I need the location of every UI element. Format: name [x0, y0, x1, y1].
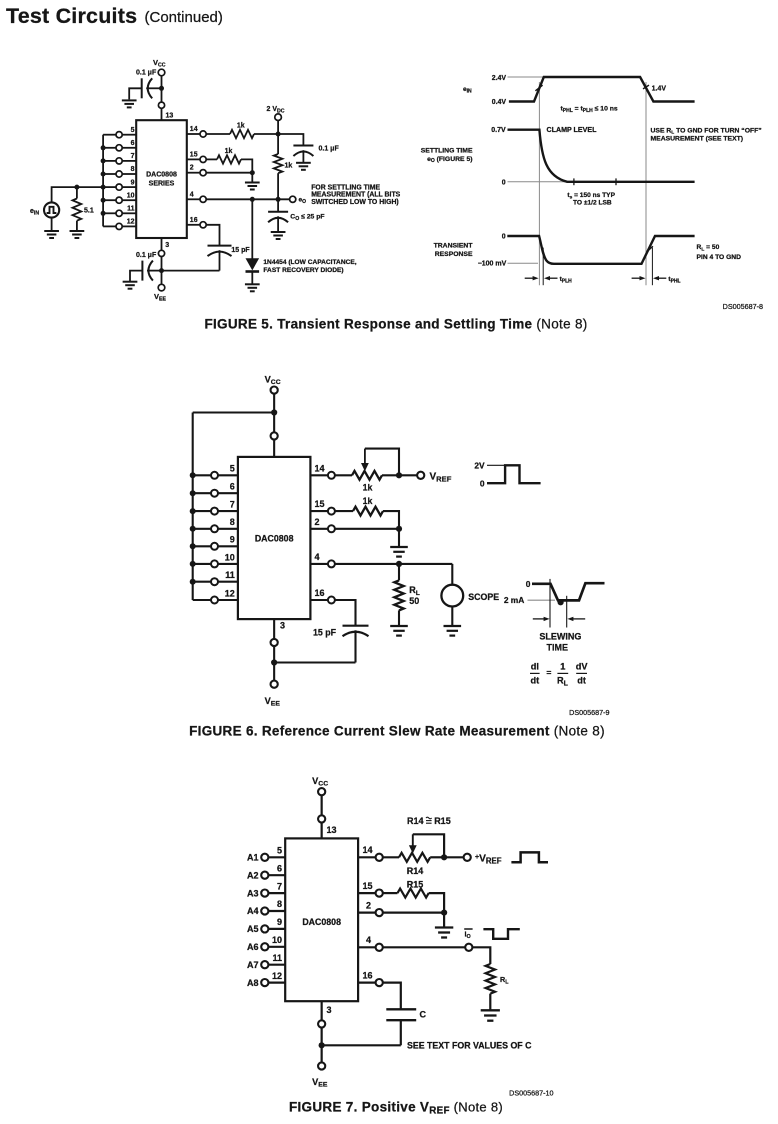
wire 2VDC to cap 0.1uF Fig5: [278, 134, 303, 146]
svg-text:2: 2: [366, 900, 371, 910]
bus junction pin 9 Fig6: [190, 543, 196, 549]
svg-text:VCC: VCC: [265, 375, 281, 387]
ground at eIN Fig5: [44, 231, 59, 238]
pin 9 input connector Fig6: [218, 545, 238, 547]
wire pin13 stub Fig6: [273, 439, 275, 457]
wire bypass cap to ground Fig5: [129, 88, 142, 99]
svg-text:0: 0: [480, 478, 485, 488]
level line 2V Fig6: [487, 464, 504, 466]
svg-text:7: 7: [131, 153, 135, 160]
pin 3 stub Fig6: [273, 619, 275, 639]
diode 1N4454 Fig5: [251, 199, 253, 258]
pin 2 connector Fig7: [358, 911, 376, 913]
wire cap C to VEE node Fig7: [322, 1044, 401, 1046]
svg-text:6: 6: [230, 482, 235, 492]
ground at resistor 5.1 Fig5: [70, 231, 85, 238]
svg-text:0: 0: [502, 179, 506, 186]
junction VCC bus Fig6: [271, 409, 277, 415]
svg-text:RESPONSE: RESPONSE: [435, 251, 473, 258]
junction pin2 ground node Fig7: [441, 910, 447, 916]
wire pin4 connector to RL Fig7: [472, 947, 490, 964]
wire eIN source to ground Fig5: [51, 218, 53, 231]
svg-text:A4: A4: [247, 906, 259, 916]
svg-text:2: 2: [315, 517, 320, 527]
waveform IO pulse Fig7: [483, 929, 519, 939]
ground at VCC bypass Fig5: [122, 100, 137, 107]
svg-text:VREF: VREF: [430, 471, 452, 483]
power terminal VEE Fig6: [271, 681, 278, 688]
svg-text:TIME: TIME: [547, 643, 569, 653]
svg-text:VEE: VEE: [265, 696, 281, 708]
waveform eIN trace Fig5: [509, 77, 695, 102]
svg-text:(Continued): (Continued): [145, 9, 223, 26]
bus junction pin 11 Fig6: [190, 579, 196, 585]
svg-text:10: 10: [225, 552, 235, 562]
pin 6 input connector Fig6: [218, 492, 238, 494]
svg-text:SEE TEXT FOR VALUES OF C: SEE TEXT FOR VALUES OF C: [407, 1040, 532, 1050]
wire VEE bypass to ground Fig5: [130, 271, 142, 282]
pin 11 input connector Fig6: [218, 581, 238, 583]
junction RL branch Fig6: [396, 561, 402, 567]
IC U3 DAC0808 Fig7: [285, 838, 358, 1001]
power terminal VCC Fig5: [158, 69, 165, 76]
dimension arrows tPHL Fig5: [632, 277, 641, 279]
svg-text:tPHL: tPHL: [668, 276, 680, 284]
power terminal VEE Fig5: [158, 284, 165, 291]
svg-text:9: 9: [131, 179, 135, 186]
capacitor 0.1uF VCC bypass Fig5: [141, 78, 143, 98]
ground at pin2 Fig5: [245, 183, 260, 190]
wire cap to VEE node Fig6: [274, 661, 355, 663]
wire pin16 to cap 15pF Fig5: [206, 225, 219, 246]
junction CO branch Fig5: [276, 197, 281, 202]
svg-text:3: 3: [280, 621, 285, 631]
svg-text:16: 16: [315, 588, 325, 598]
level line -100mV Fig5: [508, 262, 539, 264]
pin 3 stub Fig5: [161, 238, 163, 250]
pin 2 connector Fig6: [310, 528, 328, 530]
ground at pin2 Fig7: [435, 928, 453, 938]
wire cap to ground Fig5: [302, 150, 304, 163]
pin 13 connector Fig5: [158, 102, 164, 108]
pin 14 connector Fig6: [310, 474, 328, 476]
wire pin3 to VEE Fig6: [273, 646, 275, 681]
capacitor 15pF Fig6: [343, 625, 369, 627]
wire VCC to input bus Fig6: [193, 411, 274, 413]
pin 3 stub Fig7: [321, 1001, 323, 1020]
junction 2VDC node Fig5: [276, 132, 281, 137]
measure line tPLH Fig5: [542, 248, 544, 286]
tick transient rise Fig5: [647, 246, 653, 252]
pin 9 input connector Fig5: [122, 186, 136, 188]
svg-text:1k: 1k: [363, 496, 373, 506]
ground at 0.1uF cap Fig5: [296, 163, 311, 170]
svg-text:A3: A3: [247, 888, 259, 898]
svg-text:MEASUREMENT (ALL BITS: MEASUREMENT (ALL BITS: [311, 192, 400, 199]
svg-text:12: 12: [127, 219, 135, 226]
svg-text:0.1 μF: 0.1 μF: [136, 252, 157, 259]
svg-text:FOR SETTLING TIME: FOR SETTLING TIME: [311, 184, 380, 191]
svg-text:7: 7: [230, 500, 235, 510]
svg-text:4: 4: [366, 935, 371, 945]
pin 12 input A8 Fig7: [268, 981, 285, 983]
connector on pin4 line Fig7: [465, 944, 472, 951]
svg-text:SERIES: SERIES: [149, 181, 175, 188]
svg-text:14: 14: [315, 463, 325, 473]
measure line slew right Fig6: [566, 596, 568, 628]
bus junction pin 8 Fig5: [101, 172, 106, 177]
svg-text:DAC0808: DAC0808: [255, 534, 294, 544]
svg-text:DAC0808: DAC0808: [146, 172, 177, 179]
svg-text:5: 5: [230, 464, 235, 474]
svg-text:2.4V: 2.4V: [492, 75, 507, 82]
svg-text:VCC: VCC: [153, 58, 166, 69]
svg-text:A1: A1: [247, 853, 259, 863]
svg-text:SCOPE: SCOPE: [468, 592, 499, 602]
svg-text:Test Circuits: Test Circuits: [6, 4, 137, 28]
svg-text:=: =: [546, 668, 551, 678]
pin 11 input A7 Fig7: [268, 964, 285, 966]
input bus wire Fig5: [102, 135, 104, 227]
svg-text:SETTLING TIME: SETTLING TIME: [421, 147, 473, 154]
svg-text:15: 15: [315, 499, 325, 509]
wire pin4 to eO Fig5: [206, 198, 289, 200]
junction pot wiper Fig6: [396, 472, 402, 478]
junction VEE node Fig6: [271, 659, 277, 665]
svg-text:50: 50: [409, 596, 419, 606]
ground at RL Fig6: [390, 626, 408, 636]
svg-text:RL = 50: RL = 50: [697, 244, 720, 252]
power terminal 2VDC Fig5: [275, 114, 282, 121]
capacitor CO Fig5: [277, 199, 279, 212]
junction eIN resistor Fig5: [74, 185, 79, 190]
pin 2 connector Fig5: [187, 172, 200, 174]
pin 10 input connector Fig6: [218, 563, 238, 565]
svg-text:4: 4: [315, 552, 320, 562]
svg-text:FIGURE 7. Positive VREF (Note: FIGURE 7. Positive VREF (Note 8): [289, 1100, 503, 1117]
pin 12 input connector Fig5: [122, 225, 136, 227]
svg-text:VEE: VEE: [154, 292, 166, 303]
svg-text:10: 10: [272, 935, 282, 945]
output terminal eO Fig5: [290, 196, 296, 202]
svg-text:5: 5: [131, 127, 135, 134]
pulse source eIN Fig5: [44, 202, 59, 217]
svg-text:16: 16: [363, 970, 373, 980]
power terminal VCC Fig6: [271, 387, 278, 394]
svg-text:6: 6: [277, 863, 282, 873]
svg-text:15: 15: [363, 881, 373, 891]
pin 7 input connector Fig5: [122, 160, 136, 162]
dimension arrows tPLH Fig5: [525, 277, 534, 279]
svg-text:1k: 1k: [363, 483, 373, 493]
wire R15 to pin2 node Fig7: [429, 893, 444, 913]
svg-text:−100 mV: −100 mV: [478, 261, 507, 268]
svg-text:eIN: eIN: [30, 208, 39, 217]
measure line slew left Fig6: [549, 579, 551, 628]
resistor 1k Fig6: [335, 510, 353, 512]
wire R14 to +VREF Fig7: [444, 856, 464, 858]
wire pin15 to pin2 node Fig5: [241, 159, 252, 172]
svg-text:11: 11: [225, 570, 235, 580]
svg-text:5.1: 5.1: [84, 208, 94, 215]
svg-text:DS005687-9: DS005687-9: [569, 708, 609, 717]
wire bypass cap to junction Fig5: [146, 87, 159, 89]
pin 3 connector Fig6: [271, 639, 278, 646]
svg-text:CLAMP LEVEL: CLAMP LEVEL: [547, 126, 598, 134]
pin 16 connector Fig5: [187, 224, 200, 226]
svg-text:RL: RL: [557, 676, 569, 688]
svg-text:CO ≤ 25 pF: CO ≤ 25 pF: [290, 213, 324, 222]
svg-text:DS005687-10: DS005687-10: [509, 1089, 553, 1098]
capacitor 0.1uF VEE bypass Fig5: [141, 261, 143, 281]
svg-text:A2: A2: [247, 870, 259, 880]
wire pin13 stub Fig7: [321, 823, 323, 839]
svg-text:8: 8: [131, 166, 135, 173]
svg-text:R14: R14: [407, 866, 424, 876]
input bus wire Fig6: [192, 413, 194, 601]
ground at diode Fig5: [245, 284, 260, 291]
pin 6 input A2 Fig7: [268, 874, 285, 876]
reference line right Fig5 waveforms: [645, 82, 647, 285]
svg-text:1N4454 (LOW CAPACITANCE,: 1N4454 (LOW CAPACITANCE,: [263, 259, 356, 266]
svg-text:1k: 1k: [285, 163, 293, 170]
pin 5 input connector Fig6: [218, 474, 238, 476]
svg-text:eIN: eIN: [463, 86, 472, 95]
pin 7 input A3 Fig7: [268, 892, 285, 894]
bus junction pin 9 Fig5: [101, 185, 106, 190]
ground at VEE bypass Fig5: [123, 282, 138, 289]
wire scope to ground Fig6: [451, 607, 453, 627]
svg-text:14: 14: [190, 126, 198, 133]
svg-text:2V: 2V: [474, 461, 485, 471]
svg-text:9: 9: [277, 917, 282, 927]
svg-text:dt: dt: [577, 676, 586, 686]
svg-text:12: 12: [225, 588, 235, 598]
svg-text:tPLH: tPLH: [560, 276, 573, 284]
svg-text:1: 1: [560, 661, 565, 671]
power terminal VEE Fig7: [318, 1062, 325, 1069]
svg-text:14: 14: [363, 845, 373, 855]
wire pin2 to ground node Fig5: [206, 172, 252, 174]
pin 15 connector Fig6: [310, 510, 328, 512]
pin 8 input A4 Fig7: [268, 910, 285, 912]
svg-text:15: 15: [190, 151, 198, 158]
svg-text:0.1 μF: 0.1 μF: [319, 146, 340, 153]
svg-text:1k: 1k: [237, 123, 245, 130]
pin 3 connector Fig5: [158, 250, 164, 256]
capacitor 15pF Fig5: [208, 245, 232, 247]
svg-text:1.4V: 1.4V: [652, 86, 667, 93]
pin 3 connector Fig7: [318, 1020, 325, 1027]
svg-text:RL: RL: [500, 975, 509, 986]
svg-text:SWITCHED LOW TO HIGH): SWITCHED LOW TO HIGH): [311, 199, 399, 206]
svg-text:A8: A8: [247, 978, 259, 988]
ground at RL Fig7: [481, 1010, 500, 1020]
bus junction pin 6 Fig6: [190, 490, 196, 496]
bus junction pin 8 Fig6: [190, 526, 196, 532]
wire pin2 node to ground Fig7: [443, 913, 445, 928]
pin 16 connector Fig7: [358, 981, 376, 983]
wire pin2 node to ground Fig6: [398, 529, 400, 547]
junction VEE node Fig5: [159, 268, 164, 273]
wire pin3 to VEE Fig7: [321, 1027, 323, 1062]
svg-text:15 pF: 15 pF: [231, 247, 250, 254]
pin 14 connector Fig7: [358, 856, 376, 858]
resistor 1k output Fig5: [206, 133, 230, 135]
wire pin13 stub Fig5: [161, 108, 163, 120]
svg-text:DS005687-8: DS005687-8: [723, 302, 763, 311]
wire pin2 to ground node Fig7: [383, 911, 444, 913]
svg-text:0.1 μF: 0.1 μF: [136, 70, 157, 77]
power terminal VCC Fig7: [318, 788, 325, 795]
ground at CO Fig5: [271, 232, 286, 239]
svg-text:16: 16: [190, 217, 198, 224]
wire pin16 to cap C Fig7: [383, 983, 401, 1010]
svg-text:eO: eO: [299, 197, 307, 206]
svg-text:tPHL = tPLH ≤ 10 ns: tPHL = tPLH ≤ 10 ns: [561, 106, 618, 114]
svg-text:eO (FIGURE 5): eO (FIGURE 5): [427, 156, 472, 164]
output terminal +VREF Fig7: [464, 854, 471, 861]
svg-text:0.7V: 0.7V: [491, 127, 506, 134]
svg-text:DAC0808: DAC0808: [302, 917, 341, 927]
junction pin2 ground node Fig5: [250, 170, 255, 175]
bus junction pin 7 Fig5: [101, 158, 106, 163]
waveform +VREF pulse Fig7: [511, 852, 548, 862]
resistor 1k vertical Fig5: [277, 134, 279, 154]
pin 5 input connector Fig5: [122, 134, 136, 136]
svg-text:dV: dV: [576, 661, 589, 671]
svg-text:VEE: VEE: [312, 1077, 328, 1089]
bus junction pin 7 Fig6: [190, 508, 196, 514]
bus junction pin 6 Fig5: [101, 145, 106, 150]
pin 15 connector Fig5: [187, 158, 200, 160]
tick settling 1 Fig5: [573, 178, 575, 185]
wire to ground pin2 Fig5: [251, 173, 253, 183]
pin 9 input A5 Fig7: [268, 928, 285, 930]
svg-text:2 VDC: 2 VDC: [267, 106, 285, 115]
wire eIN node Fig5: [52, 187, 104, 202]
svg-text:A5: A5: [247, 924, 259, 934]
wire pin4 to scope Fig6: [335, 563, 452, 565]
junction pin2 ground node Fig6: [396, 526, 402, 532]
svg-text:VCC: VCC: [312, 776, 328, 788]
dimension arrows slewing Fig6: [533, 618, 546, 620]
svg-text:8: 8: [230, 517, 235, 527]
svg-text:C: C: [420, 1009, 427, 1019]
level line 2.4V Fig5: [508, 76, 544, 78]
pin 10 input connector Fig5: [122, 199, 136, 201]
zero reference settling Fig5: [508, 181, 569, 183]
svg-text:A6: A6: [247, 942, 259, 952]
wire VEE node to cap15pF Fig5: [162, 270, 220, 272]
IC U2 DAC0808 Fig6: [238, 457, 311, 619]
svg-text:3: 3: [327, 1005, 332, 1015]
svg-text:9: 9: [230, 535, 235, 545]
pin 13 connector Fig7: [318, 815, 325, 822]
svg-text:7: 7: [277, 881, 282, 891]
capacitor C Fig7: [386, 1008, 416, 1010]
measure line tPHL Fig5: [651, 248, 653, 286]
bus junction pin 10 Fig6: [190, 561, 196, 567]
tick rising edge Fig5: [535, 85, 542, 91]
bus junction pin 5 Fig6: [190, 472, 196, 478]
svg-text:SLEWING: SLEWING: [539, 631, 581, 641]
scope Fig6: [441, 585, 463, 607]
waveform 2V pulse Fig6: [487, 465, 541, 483]
svg-text:11: 11: [127, 206, 135, 213]
resistor R15 Fig7: [383, 892, 398, 894]
wire pin2 to ground node Fig6: [335, 528, 399, 530]
svg-text:2 mA: 2 mA: [504, 595, 524, 605]
waveform transient trace Fig5: [507, 236, 694, 264]
svg-text:3: 3: [165, 242, 169, 249]
tick falling edge Fig5: [643, 85, 649, 89]
waveform settling trace Fig5: [508, 130, 695, 182]
bus junction pin 10 Fig5: [101, 198, 106, 203]
wire pin4 to RL Fig7: [383, 946, 465, 948]
svg-text:10: 10: [127, 192, 135, 199]
svg-text:13: 13: [166, 113, 174, 120]
potentiometer 1k Fig6: [335, 474, 352, 476]
pin 7 input connector Fig6: [218, 510, 238, 512]
junction VEE node Fig7: [319, 1042, 325, 1048]
tick settling 2 Fig5: [615, 178, 617, 185]
pin 10 input A6 Fig7: [268, 946, 285, 948]
junction R14 wiper Fig7: [441, 854, 447, 860]
wire VCC to pin13 Fig5: [161, 75, 163, 102]
junction VCC bypass Fig5: [159, 86, 164, 91]
svg-text:5: 5: [277, 846, 282, 856]
svg-text:A7: A7: [247, 960, 259, 970]
wire pot to VREF Fig6: [399, 474, 417, 476]
IC U1 DAC0808 SERIES Fig5: [136, 120, 187, 238]
svg-text:dt: dt: [530, 676, 539, 686]
output terminal VREF Fig6: [417, 472, 424, 479]
svg-text:TO ±1/2 LSB: TO ±1/2 LSB: [573, 200, 612, 207]
svg-text:15 pF: 15 pF: [313, 628, 337, 638]
pin 13 connector Fig6: [271, 432, 278, 439]
wire VCC to pin13 Fig6: [273, 394, 275, 433]
wire pin15 to pin2 node Fig6: [383, 511, 399, 529]
svg-text:12: 12: [272, 971, 282, 981]
pin 12 input connector Fig6: [218, 599, 238, 601]
wire VCC to pin13 Fig7: [321, 795, 323, 815]
svg-text:0: 0: [526, 579, 531, 589]
svg-text:MEASUREMENT (SEE TEXT): MEASUREMENT (SEE TEXT): [651, 135, 744, 142]
svg-text:13: 13: [327, 825, 337, 835]
level line 2mA Fig6: [528, 599, 556, 601]
svg-text:2: 2: [190, 165, 194, 172]
svg-text:4: 4: [190, 191, 194, 198]
svg-text:R14: R14: [407, 816, 424, 826]
svg-text:0.4V: 0.4V: [492, 99, 507, 106]
pin 15 connector Fig7: [358, 892, 376, 894]
pin 6 input connector Fig5: [122, 147, 136, 149]
svg-text:FIGURE 6. Reference Current Sl: FIGURE 6. Reference Current Slew Rate Me…: [189, 724, 605, 739]
svg-text:8: 8: [277, 899, 282, 909]
wire pin3 to VEE Fig5: [161, 257, 163, 285]
resistor RL 50 Fig6: [398, 564, 400, 581]
svg-text:dI: dI: [531, 661, 539, 671]
resistor RL Fig7: [486, 964, 495, 994]
pin 5 input A1 Fig7: [268, 856, 285, 858]
pin 11 input connector Fig5: [122, 212, 136, 214]
resistor 5.1 Fig5: [76, 187, 78, 198]
pin 8 input connector Fig6: [218, 528, 238, 530]
svg-text:R15: R15: [434, 816, 451, 826]
pin 4 connector Fig6: [310, 563, 328, 565]
pin 14 connector Fig5: [187, 133, 200, 135]
